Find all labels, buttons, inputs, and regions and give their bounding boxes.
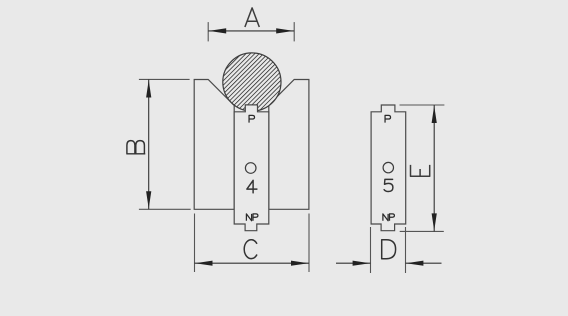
letter A bbox=[245, 8, 259, 27]
v-block left half bbox=[194, 80, 234, 210]
hole circle on gauge 4 bbox=[245, 163, 256, 174]
dimension B bbox=[139, 79, 191, 209]
v-block right half bbox=[269, 80, 309, 210]
label P on gauge 4 bbox=[249, 115, 255, 122]
dimension C bbox=[195, 214, 310, 273]
label NP on gauge 4 bbox=[246, 214, 258, 221]
dimension D bbox=[336, 227, 442, 273]
gauge 5 (standalone right) bbox=[371, 105, 406, 231]
dimension E bbox=[400, 105, 445, 231]
letter E (rotated) bbox=[411, 165, 430, 176]
letter C bbox=[244, 240, 257, 259]
hole circle on gauge 5 bbox=[383, 162, 393, 172]
digit 4 bbox=[247, 180, 257, 193]
label P on gauge 5 bbox=[385, 115, 391, 122]
letter D bbox=[382, 240, 396, 259]
letter B (rotated) bbox=[126, 141, 145, 154]
ball (hatched circle) bbox=[223, 53, 281, 111]
label NP on gauge 5 bbox=[383, 214, 395, 221]
digit 5 bbox=[384, 179, 393, 191]
gauge 4 (center insert) bbox=[234, 105, 269, 231]
dimension A bbox=[208, 22, 294, 41]
